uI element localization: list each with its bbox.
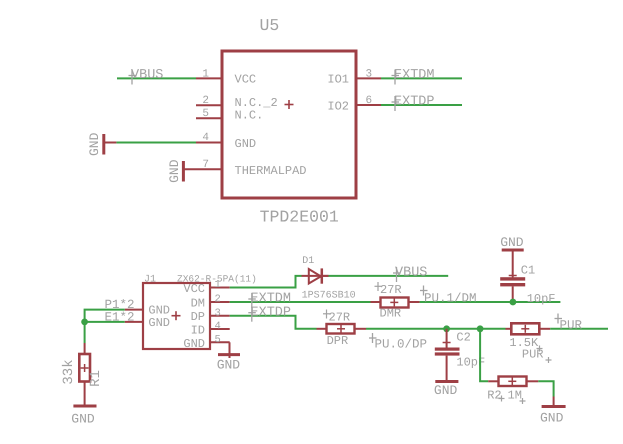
PUR value cross mark [537,346,543,352]
junction node at R1 top [81,319,88,326]
PUR right lead [539,328,550,330]
svg-text:33k: 33k [61,359,77,384]
svg-text:5: 5 [202,108,209,120]
J1 pin 5 stub [210,341,230,343]
svg-text:C1: C1 [521,264,535,278]
U5 pin 2 stub [196,104,222,106]
svg-text:7: 7 [202,159,209,171]
svg-text:VBUS: VBUS [395,266,427,281]
svg-text:R2: R2 [487,389,501,403]
svg-text:GND: GND [183,337,205,351]
junction node C1 [510,299,517,306]
resistor R2 body [499,377,527,387]
wire J1 pin3 to DPR (EXTDP) [230,316,317,329]
C2 bottom lead [446,356,448,382]
resistor PUR body (1.5K) [511,323,539,334]
svg-text:DP: DP [191,310,205,324]
wire U5 pin3 to EXTDM [381,77,462,79]
J1 left pin E1 stub [125,321,143,323]
svg-text:GND: GND [500,235,524,250]
svg-text:1: 1 [202,69,209,81]
svg-text:4: 4 [202,132,209,144]
svg-text:10pF: 10pF [527,292,556,306]
wire J1 pin5 down to ground [229,342,231,358]
wire junction to PUR resistor [506,328,512,330]
R2 left lead [488,380,498,382]
wire E1 to junction [85,321,125,323]
label EXTDM origin cross (J1) [248,293,256,308]
J1 pin 1 stub [210,287,230,289]
J1 left pin P1 stub [125,309,143,311]
R1 top lead [84,343,86,354]
C2 origin cross [443,339,451,347]
wire VBUS to U5 pin 1 [117,77,196,79]
resistor DPR body [327,324,355,334]
C1 top lead [512,250,514,277]
svg-text:GND: GND [217,358,241,373]
svg-text:U5: U5 [260,16,280,35]
DMR value cross mark [375,282,382,291]
svg-text:VCC: VCC [235,73,257,87]
svg-text:IO1: IO1 [327,73,349,87]
label PUR origin cross [555,314,563,324]
svg-text:1: 1 [215,279,221,291]
ground symbol at U5 pin 7 [182,161,185,182]
resistor R1 body [79,354,90,382]
svg-text:PU.1/DM: PU.1/DM [424,291,477,305]
svg-text:27R: 27R [329,311,351,325]
svg-text:PUR: PUR [522,348,544,362]
C1 origin cross [509,272,517,280]
svg-text:N.C.: N.C. [235,109,264,123]
U5 pin 7 stub [183,168,222,170]
U5 pin 4 stub [196,142,222,144]
svg-text:GND: GND [434,383,458,398]
ground lead R2 [553,397,555,407]
R2 name cross mark [499,396,505,402]
svg-text:4: 4 [215,321,221,333]
label PU.0/DP origin cross [369,333,377,343]
label PU.1/DM origin cross [420,286,428,296]
capacitor C2 top lead [446,329,448,348]
wire J1 pin2 to DMR [230,301,371,303]
J1 pin 3 stub [210,315,230,317]
svg-text:1PS76SB10: 1PS76SB10 [302,291,356,302]
U5 pin 1 stub [196,77,222,79]
svg-text:TPD2E001: TPD2E001 [260,208,339,227]
junction node R2 [477,325,484,332]
svg-text:27R: 27R [380,283,402,297]
IC U5 body outline [222,51,356,198]
svg-text:VCC: VCC [183,282,205,296]
label VBUS origin cross [129,70,137,85]
GND stub at pin4 symbol [103,142,116,144]
label EXTDM origin cross (U5) [392,70,400,85]
PUR name cross mark [546,357,552,363]
svg-text:GND: GND [148,316,170,330]
svg-text:2: 2 [215,294,221,306]
R1 bottom lead [84,382,86,407]
ground symbol below J1 pin5 [218,353,240,356]
J1 pin 4 stub [210,328,230,330]
R2 value cross mark [520,398,526,404]
wire junction down to R2 [480,329,488,382]
PUR origin cross [521,325,529,333]
J1 origin cross [172,311,181,320]
wire DPR to C2 junction [366,328,506,330]
DPR origin cross [337,325,345,333]
svg-text:6: 6 [366,95,373,107]
U5 pin 6 stub [356,104,381,106]
svg-text:GND: GND [71,412,95,427]
wire D1 to VBUS [329,275,449,277]
svg-text:EXTDP: EXTDP [251,305,292,320]
wire U5 pin4 to GND [116,142,196,144]
svg-text:GND: GND [540,411,564,426]
wire DMR to PU.1/DM [420,301,561,303]
diode D1 cathode lead [322,275,329,277]
label VBUS origin cross (lower) [393,267,401,282]
junction node C2 [443,325,450,332]
wire P1 to junction [85,310,125,322]
svg-text:IO2: IO2 [327,99,349,113]
svg-text:R1: R1 [88,370,104,387]
DPR left lead [317,328,327,330]
ground symbol at U5 pin 4 [102,134,105,155]
ground bar above C1 [502,249,524,252]
svg-text:THERMALPAD: THERMALPAD [235,164,307,178]
svg-text:D1: D1 [302,256,314,267]
ground symbol right of R2 [542,405,566,408]
R2 right lead [527,380,539,382]
DPR right lead [355,328,367,330]
wire R2 to ground bend [538,381,553,396]
U5 origin cross [285,100,294,109]
ground symbol below R1 [73,405,96,408]
svg-text:GND: GND [235,137,257,151]
DMR origin cross [390,298,398,306]
connector J1 body outline [143,283,210,349]
diode D1 cathode bar [321,268,324,283]
svg-text:GND: GND [87,132,102,156]
ground symbol below C2 [435,380,458,383]
svg-text:DMR: DMR [380,307,402,321]
svg-text:3: 3 [366,69,373,81]
diode D1 anode lead [302,275,329,277]
U5 pin 3 stub [356,77,381,79]
J1 pin 2 stub [210,301,230,303]
svg-text:PU.0/DP: PU.0/DP [375,337,428,351]
svg-text:PUR: PUR [560,318,583,332]
wire junction down to R1 [84,322,86,343]
R2 origin cross [508,377,516,385]
svg-text:EXTDP: EXTDP [394,95,435,110]
capacitor C1 plates [500,277,525,286]
DMR right lead [409,301,420,303]
svg-text:DPR: DPR [327,334,349,348]
svg-text:5: 5 [215,334,221,346]
wire PUR net [550,328,608,330]
DMR left lead [371,301,381,303]
svg-text:GND: GND [167,159,182,183]
wire J1 pin1 to diode bend [230,276,302,288]
capacitor C2 plates [435,348,460,356]
label EXTDP origin cross (J1) [248,307,256,322]
svg-text:VBUS: VBUS [131,68,163,83]
svg-text:ID: ID [191,324,205,338]
wire U5 pin6 to EXTDP [381,104,462,106]
label EXTDP origin cross (U5) [392,96,400,111]
R1 origin cross [81,364,89,372]
svg-text:3: 3 [215,307,221,319]
svg-text:2: 2 [202,95,209,107]
svg-text:C2: C2 [456,331,470,345]
diode D1 triangle [309,269,321,284]
svg-text:DM: DM [191,297,205,311]
U5 pin 5 stub [196,117,222,119]
resistor DMR body [381,298,409,308]
svg-text:EXTDM: EXTDM [394,68,435,83]
C1 bottom lead [512,286,514,302]
DPR value cross mark [323,310,330,319]
